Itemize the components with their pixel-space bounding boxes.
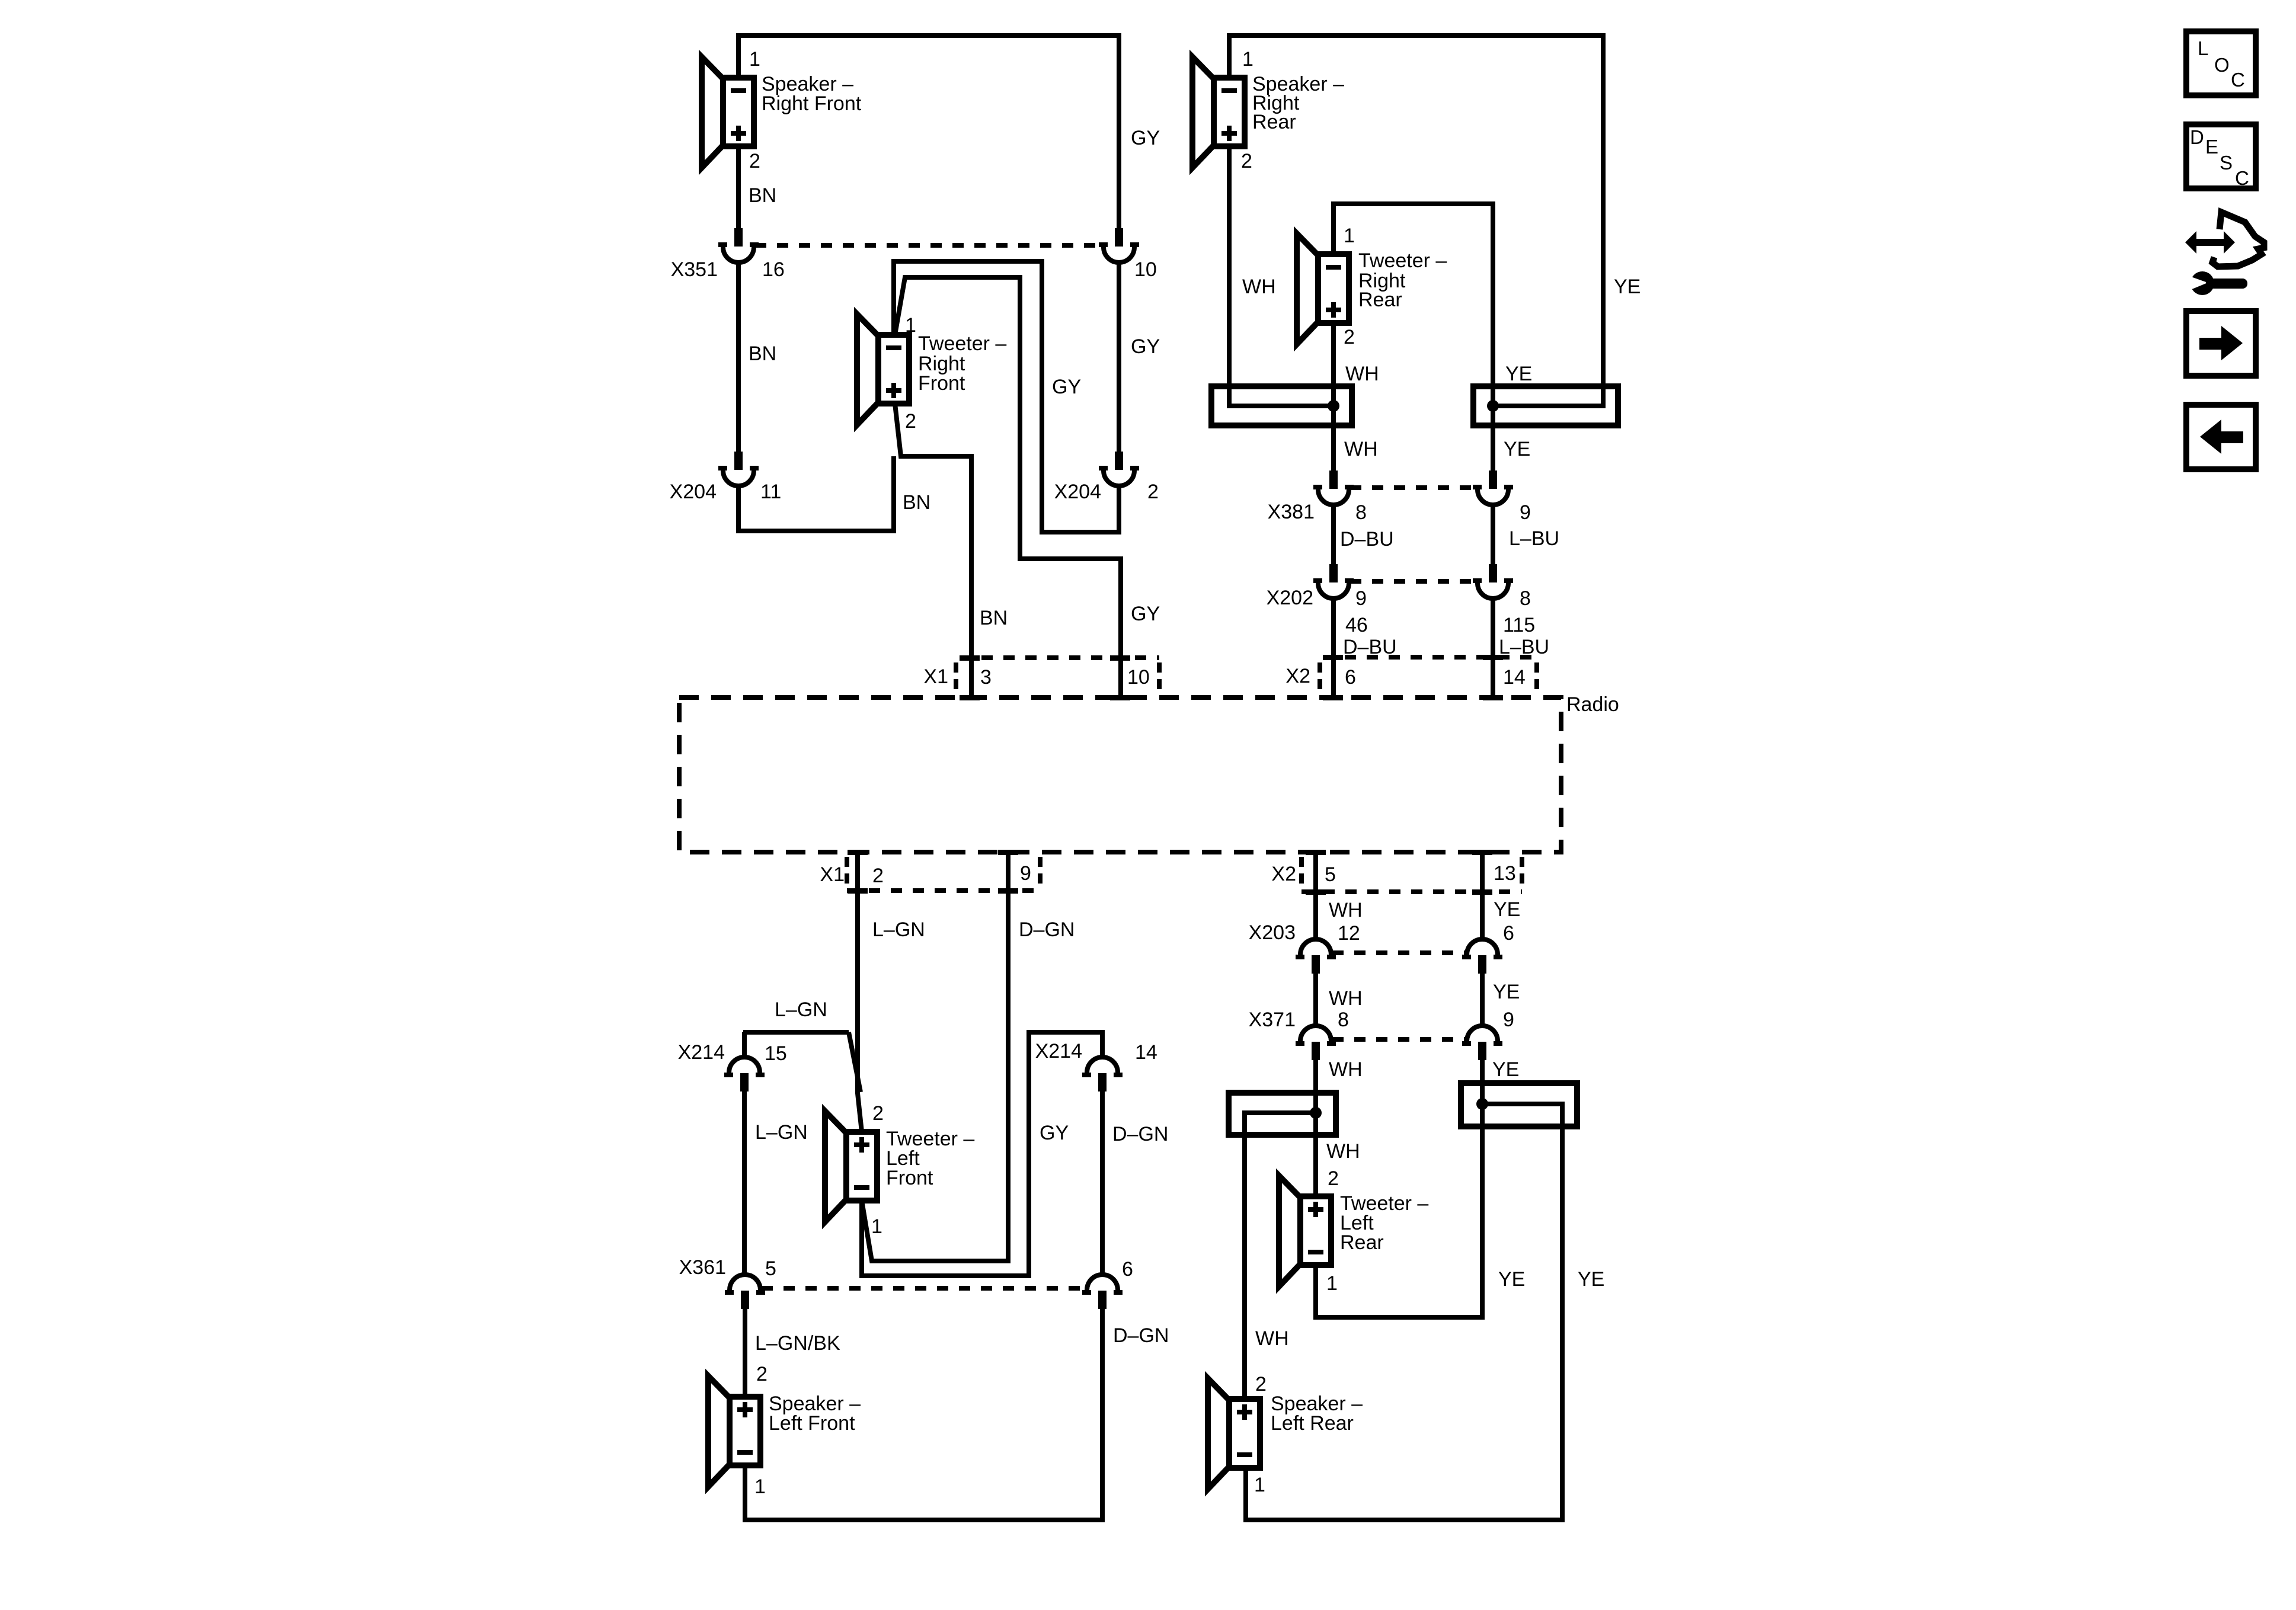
splice S1 (right rear WH) [1211,386,1352,425]
wire WH TW-RR pin2 through splice S1 to X381 pin8 [1331,323,1336,470]
label TW-RR pins and name [1344,225,1447,348]
svg-text:X204: X204 [670,481,717,503]
wire YE SPKR-RR pin1 to splice S2 [1229,36,1603,406]
wire WH radio X2 pin5 to X203 pin12 [1313,852,1318,939]
label X202 and pins 9 / 8 with circuits 46 / 115 [1267,587,1536,636]
svg-text:X2: X2 [1285,665,1310,687]
svg-text:L: L [2198,37,2208,59]
wire D-GN radio X1 pin9 to TW-LF pin1 [862,852,1008,1261]
wire YE X203-6 to X371 pin9 [1480,974,1485,1026]
radio connector tab X2 (pins 6, 14) [1285,655,1537,700]
svg-text:15: 15 [765,1042,787,1065]
connector X351 pin 10 [1099,228,1139,263]
label TW-LR pins and name [1326,1167,1428,1295]
svg-text:14: 14 [1135,1041,1157,1064]
svg-text:1: 1 [749,48,760,71]
tweeter TW-RR (Tweeter - Right Rear) [1297,233,1349,344]
svg-text:8: 8 [1520,587,1531,610]
label X371 and pins 8 / 9 [1249,1009,1514,1031]
svg-text:WH: WH [1329,987,1363,1010]
svg-text:WH: WH [1242,276,1276,298]
svg-text:WH: WH [1344,438,1378,460]
tweeter TW-RF (Tweeter - Right Front) [857,314,909,425]
radio connector tab X1 (pins 3, 10) [923,655,1159,700]
wire WH splice S3 to SPKR-LR pin2 [1245,1113,1316,1399]
svg-text:Left Front: Left Front [769,1412,855,1435]
svg-text:X202: X202 [1267,587,1313,609]
connector X381 pin 9 [1473,470,1513,505]
svg-text:8: 8 [1355,501,1367,524]
svg-text:D: D [2190,126,2204,148]
svg-text:C: C [2235,167,2249,189]
svg-text:X361: X361 [679,1256,726,1279]
wire L-GN/BK X361-5 to SPKR-LF pin2 [743,1309,747,1397]
wire WH SPKR-RR pin2 to splice S1 [1229,146,1334,406]
connector X351 pin 16 [718,228,759,263]
connector X371 dashed face line [1332,1037,1466,1042]
splice S3 (left rear WH) [1229,1093,1336,1135]
label X214 pin 14 [1035,1040,1157,1064]
svg-text:1: 1 [1254,1474,1265,1496]
connector X203 pin 6 [1462,939,1502,974]
svg-text:WH: WH [1329,899,1363,921]
svg-text:2: 2 [1344,326,1355,348]
splice S2 (right rear YE) [1473,386,1618,425]
label X204 pin 2 [1054,481,1159,503]
svg-text:1: 1 [1344,225,1355,247]
svg-text:2: 2 [872,1102,884,1125]
svg-text:2: 2 [1328,1167,1339,1190]
svg-text:1: 1 [1242,48,1253,71]
svg-text:Front: Front [918,372,965,395]
svg-text:C: C [2231,69,2245,91]
connector X203 dashed face line [1332,950,1466,955]
speaker SPKR-RF (Speaker - Right Front) [702,57,754,168]
icon previous-page arrow button [2186,405,2256,469]
radio connector tab X1 (pins 2, 9) [820,850,1040,894]
icon LOC button [2186,31,2256,95]
svg-text:Radio: Radio [1566,693,1619,716]
svg-text:BN: BN [749,343,776,365]
svg-text:L–GN: L–GN [775,998,827,1021]
svg-text:2: 2 [1147,481,1159,503]
svg-text:X203: X203 [1249,921,1296,944]
connector X204 pin 11 [718,452,759,486]
wire 46 D-BU X202-9 to radio X2 pin6 [1331,598,1336,697]
svg-text:L–BU: L–BU [1509,527,1559,550]
svg-text:6: 6 [1345,666,1356,689]
svg-text:L–GN: L–GN [872,918,925,941]
svg-text:10: 10 [1127,666,1150,689]
svg-text:13: 13 [1494,862,1516,885]
connector X214 pin 14 [1082,1057,1123,1092]
tweeter TW-LR (Tweeter - Left Rear) [1279,1176,1331,1286]
label TW-RF pins and name [905,314,1006,433]
svg-text:115: 115 [1503,614,1535,636]
svg-text:5: 5 [765,1257,776,1280]
svg-text:YE: YE [1504,438,1530,460]
label X204 pin 11 [670,481,782,503]
svg-text:YE: YE [1614,276,1641,298]
svg-text:Tweeter –: Tweeter – [1358,249,1447,272]
svg-text:D–BU: D–BU [1340,528,1394,550]
connector X214 pin 15 [724,1057,765,1092]
svg-text:X214: X214 [678,1041,725,1064]
svg-text:D–GN: D–GN [1112,1123,1168,1145]
svg-text:2: 2 [756,1363,768,1385]
svg-text:9: 9 [1020,862,1031,885]
svg-text:WH: WH [1326,1140,1360,1163]
connector X202 pin 9 [1313,564,1354,598]
label X214 pin 15 [678,1041,787,1065]
svg-text:3: 3 [980,666,992,689]
svg-text:2: 2 [1255,1373,1267,1395]
wire WH X203-12 to X371 pin8 [1313,974,1318,1026]
svg-text:Rear: Rear [1340,1231,1384,1254]
svg-text:GY: GY [1040,1122,1069,1144]
svg-text:6: 6 [1122,1258,1133,1281]
svg-text:YE: YE [1494,898,1520,921]
svg-text:X2: X2 [1271,863,1296,885]
label SPKR-LR pins and name [1254,1373,1363,1496]
svg-text:GY: GY [1131,335,1160,358]
svg-text:X214: X214 [1035,1040,1082,1062]
connector X381 dashed face line [1350,485,1476,490]
svg-text:YE: YE [1493,981,1520,1003]
wire SPKR-RF pin1 GY to X351 pin10 [738,36,1119,228]
svg-text:L–GN: L–GN [755,1121,808,1144]
connector X202 dashed face line [1350,579,1476,584]
speaker SPKR-LF (Speaker - Left Front) [708,1376,760,1487]
svg-text:2: 2 [749,150,760,172]
svg-text:O: O [2214,54,2230,76]
wire into X214 pin15 [742,1032,747,1057]
svg-text:S: S [2220,152,2233,174]
svg-text:2: 2 [872,865,884,887]
svg-text:X204: X204 [1054,481,1101,503]
svg-text:GY: GY [1131,127,1160,149]
svg-text:X381: X381 [1268,501,1315,523]
speaker SPKR-RR (Speaker - Right Rear) [1192,57,1245,168]
icon harness-connector-view (double arrow, connector outline, wrench) [2185,212,2264,295]
svg-text:Front: Front [886,1167,933,1189]
radio connector tab X2 (pins 5, 13) [1271,850,1522,895]
svg-text:WH: WH [1329,1058,1363,1081]
svg-text:46: 46 [1345,614,1368,636]
connector X351 dashed face line [755,243,1104,248]
svg-text:Tweeter –: Tweeter – [918,332,1006,355]
svg-text:6: 6 [1503,922,1514,945]
label SPKR-RR pins and name [1241,48,1344,172]
svg-text:1: 1 [754,1475,766,1498]
svg-text:9: 9 [1520,501,1531,524]
svg-text:2: 2 [905,410,916,433]
wire BN X204-11 riser to TW-RF pin2 [738,456,894,531]
radio (dashed component box) [679,697,1561,852]
label SPKR-LF pins and name [754,1363,861,1498]
splice S4 (left rear YE) [1461,1083,1577,1126]
connector X361 dashed face line [762,1286,1086,1291]
wire L-GN branch TW-LF pin2 to X214 pin15 [743,1032,861,1092]
label SPKR-RF pins and name [749,48,862,172]
connector X203 pin 12 [1296,939,1336,974]
label X351 and pins 16 / 10 [671,258,1157,281]
connector X381 pin 8 [1313,470,1354,505]
wire YE X371-9 through splice S4 to TW-LR pin1 [1316,1060,1482,1317]
svg-text:L–GN/BK: L–GN/BK [755,1332,840,1355]
svg-text:E: E [2205,136,2218,158]
svg-text:11: 11 [760,481,781,503]
svg-text:Left Rear: Left Rear [1271,1412,1354,1435]
wire YE radio X2 pin13 to X203 pin6 [1480,852,1485,939]
svg-text:8: 8 [1338,1009,1349,1031]
wire BN X351-16 to X204-11 [736,263,741,452]
label X381 and pins 8 / 9 [1268,501,1531,524]
svg-text:YE: YE [1578,1268,1604,1291]
svg-text:Rear: Rear [1358,289,1402,311]
connector X361 pin 6 [1082,1275,1123,1309]
svg-text:X351: X351 [671,258,718,281]
connector X361 pin 5 [725,1275,765,1309]
svg-text:GY: GY [1052,376,1081,398]
svg-text:12: 12 [1338,922,1360,945]
wire GY TW-LF pin1 loop to X214 pin14 [862,1032,1102,1276]
tweeter TW-LF (Tweeter - Left Front) [825,1111,877,1222]
svg-text:5: 5 [1325,863,1336,886]
wire SPKR-RF pin2 BN to X351 pin16 [736,146,741,228]
wire YE splice S4 to SPKR-LR pin1 [1246,1104,1562,1520]
svg-text:BN: BN [903,491,930,514]
wire L-BU X381-9 to X202-8 [1491,505,1495,564]
svg-text:14: 14 [1503,666,1526,689]
svg-text:YE: YE [1492,1058,1519,1081]
wire D-BU X381-8 to X202-9 [1331,505,1336,564]
connector X371 pin 8 [1296,1026,1336,1060]
svg-text:1: 1 [905,314,916,337]
svg-text:WH: WH [1255,1327,1289,1350]
svg-text:D–GN: D–GN [1019,918,1075,941]
svg-text:BN: BN [980,607,1008,629]
svg-text:X1: X1 [923,665,948,688]
svg-text:D–GN: D–GN [1113,1324,1169,1347]
wire BN TW-RF pin2 to radio X1 pin3 [895,404,971,697]
connector X204 pin 2 [1099,452,1139,486]
wire GY TW-RF pin1 to radio X1 pin10 [895,277,1121,697]
connector X202 pin 8 [1473,564,1513,598]
speaker SPKR-LR (Speaker - Left Rear) [1208,1378,1260,1489]
label X361 and pins 5 / 6 [679,1256,1133,1281]
svg-text:X1: X1 [820,863,845,886]
svg-text:10: 10 [1134,258,1157,281]
wire D-GN X214-14 to X361 pin6 [1100,1092,1105,1275]
wire D-GN X361-6 to SPKR-LF pin1 [745,1309,1102,1520]
svg-text:YE: YE [1498,1268,1525,1291]
svg-text:Rear: Rear [1252,111,1296,133]
connector X371 pin 9 [1462,1026,1502,1060]
wire 115 L-BU X202-8 to radio X2 pin14 [1491,598,1495,697]
wire YE TW-RR pin1 through splice S2 to X381 pin9 [1334,204,1493,470]
svg-text:1: 1 [1326,1272,1338,1295]
svg-text:9: 9 [1355,587,1367,610]
wire L-GN radio X1 pin2 to TW-LF pin2 [858,852,862,1132]
wire L-GN X214-15 to X361 pin5 [742,1092,747,1275]
svg-text:GY: GY [1131,603,1160,625]
svg-text:Right Front: Right Front [762,92,862,115]
svg-text:16: 16 [762,258,785,281]
svg-text:2: 2 [1241,150,1252,172]
wire WH X371-8 through splice S3 to TW-LR pin2 [1313,1060,1318,1196]
svg-text:BN: BN [749,184,776,207]
svg-text:YE: YE [1505,363,1532,385]
svg-text:9: 9 [1503,1009,1514,1031]
svg-text:1: 1 [871,1215,882,1238]
icon next-page arrow button [2186,311,2256,376]
wire GY X351-10 to X204-2 [1117,263,1121,452]
icon DESC button [2186,124,2256,189]
wire GY X204-2 loop to TW-RF pin1 [894,261,1119,532]
label TW-LF pins and name [871,1102,974,1238]
svg-text:X371: X371 [1249,1009,1296,1031]
label X203 and pins 12 / 6 [1249,921,1514,945]
svg-text:WH: WH [1345,363,1379,385]
